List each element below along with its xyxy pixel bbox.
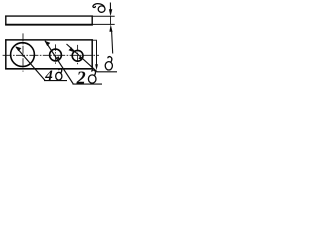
extension line bottom: [92, 23, 115, 25]
arrow tail: [112, 31, 113, 54]
arrow down right: [95, 64, 98, 70]
svg-text:2: 2: [76, 67, 86, 87]
hole middle 2delta: [50, 49, 62, 61]
leader 2delta arrow: [45, 41, 51, 46]
shelf 4delta: [44, 80, 67, 82]
svg-text:4: 4: [44, 68, 53, 84]
leader 4delta arrow: [15, 46, 21, 51]
leader delta arrow at arc: [78, 56, 82, 60]
label 4delta: delta: [56, 69, 62, 80]
vertical dimension line right: [96, 41, 98, 65]
hole large 4delta: [11, 43, 35, 67]
center line vertical right: [77, 45, 79, 65]
label delta top: [93, 4, 106, 14]
extension line top: [92, 15, 115, 17]
leader delta right: [67, 44, 98, 72]
front view plate outline: [5, 39, 93, 41]
leader 2delta arrow at arc: [56, 56, 60, 60]
extension tick top edge: [92, 39, 97, 41]
center line horizontal: [3, 54, 99, 56]
leader 4delta: [16, 47, 45, 80]
technical drawing: plate with holes, thickness delta: [0, 0, 119, 93]
leader delta arrow: [69, 47, 75, 52]
leader 2delta: [45, 41, 73, 84]
arrow down: [109, 9, 112, 16]
dimension line thickness: [109, 3, 111, 11]
shelf 2delta: [73, 83, 103, 85]
shelf delta: [97, 71, 118, 73]
label 2delta: delta: [88, 70, 96, 83]
label delta right: [105, 57, 112, 70]
hole right delta: [72, 50, 83, 61]
top view plate outline: [5, 15, 93, 17]
center line vertical middle: [55, 44, 57, 64]
arrow up: [109, 24, 112, 32]
center line vertical large: [22, 33, 24, 71]
